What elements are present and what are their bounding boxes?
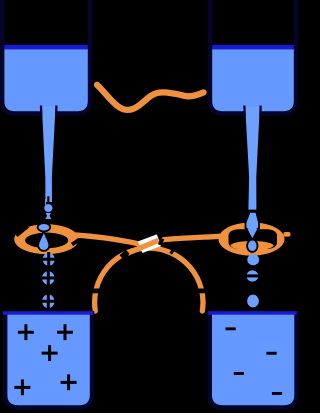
right reservoir water surface line	[212, 45, 294, 50]
wire from left ring (under at crossing)	[73, 235, 141, 245]
left dropper tube	[42, 107, 56, 203]
minus charges in right bucket	[226, 327, 283, 395]
right bucket rim line	[208, 311, 296, 315]
left ring (charging electrode)	[14, 224, 79, 254]
right charged droplets	[246, 254, 259, 307]
right tube wall notches	[244, 106, 260, 117]
plus charges in left bucket	[14, 324, 76, 395]
left bucket outline	[5, 311, 92, 408]
right bucket outline	[210, 311, 297, 408]
left stream droplets above ring	[38, 199, 53, 251]
left reservoir water surface line	[4, 45, 87, 50]
right reservoir outline	[210, 0, 296, 114]
left charged droplets with plus signs	[41, 252, 56, 309]
dome arch wires down to buckets	[95, 248, 203, 311]
right stream droplet above ring	[246, 212, 260, 230]
right ring (charging electrode)	[219, 222, 291, 255]
breaks in arch near bucket tips	[91, 289, 205, 294]
white casing at wire crossing	[140, 240, 159, 247]
left reservoir water	[4, 49, 87, 111]
right dropper tube	[245, 107, 260, 210]
left bucket water	[7, 315, 89, 406]
wire from right ring to crossing	[219, 233, 221, 239]
right ring outer nub	[284, 232, 291, 237]
small breaks in wires	[72, 239, 174, 258]
left tube wall notches	[41, 106, 56, 117]
right droplet inside ring	[247, 229, 257, 253]
crossing over-wire diagonal	[128, 240, 159, 253]
minus sign on droplet	[246, 274, 258, 277]
left reservoir outline	[2, 0, 90, 114]
right bucket water	[212, 315, 294, 406]
right reservoir water	[212, 49, 294, 111]
left bucket rim line	[3, 311, 93, 315]
left tube tip slit	[47, 196, 49, 202]
left droplet inside ring	[38, 232, 49, 251]
wire from right ring	[164, 236, 221, 239]
connecting wavy wire between reservoirs	[97, 85, 204, 110]
